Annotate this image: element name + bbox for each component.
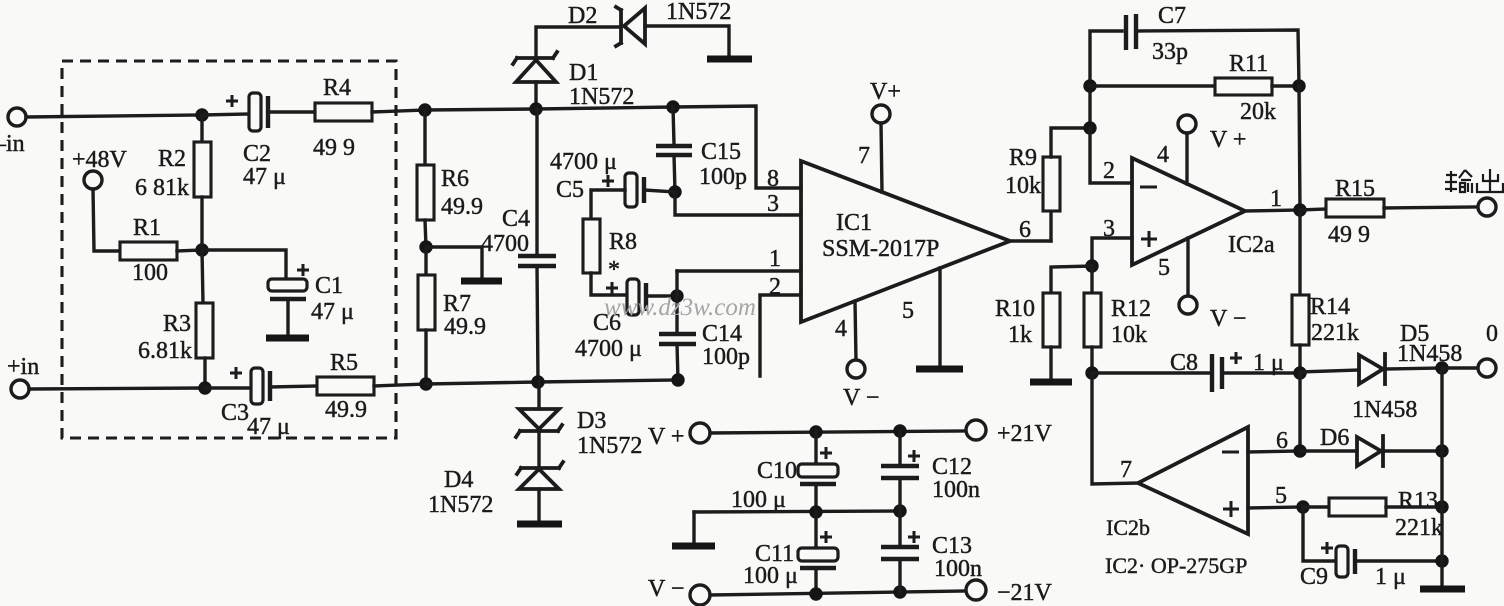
op-amp IC2b <box>1138 427 1248 534</box>
resistor R3 <box>202 250 203 303</box>
svg-text:V −: V − <box>648 576 684 602</box>
resistor R10 <box>1051 266 1092 293</box>
svg-text:1: 1 <box>769 246 781 272</box>
SECTION:LEFT <box>0 61 426 440</box>
capacitor C4 <box>535 109 538 254</box>
resistor R11 <box>1090 84 1215 87</box>
node pin5/R13/C9 <box>1296 500 1309 513</box>
ground (D2) <box>707 56 752 63</box>
capacitor C11 <box>814 512 817 548</box>
svg-text:IC2· OP-275GP: IC2· OP-275GP <box>1105 553 1247 578</box>
node R11 right <box>1292 79 1305 92</box>
svg-text:+21V: +21V <box>997 421 1053 447</box>
left feedback bus <box>1090 31 1122 128</box>
resistor R2 <box>200 115 203 142</box>
terminal -in <box>8 108 26 126</box>
svg-text:2: 2 <box>769 274 781 300</box>
svg-text:R9: R9 <box>1009 145 1037 171</box>
svg-text:4: 4 <box>835 316 847 342</box>
resistor R6 <box>423 110 426 165</box>
capacitor C10 <box>814 432 817 464</box>
wire R1 to node B <box>177 250 202 251</box>
svg-text:4: 4 <box>1157 142 1169 168</box>
svg-text:R5: R5 <box>330 350 358 376</box>
capacitor C6 <box>606 282 618 294</box>
svg-text:2: 2 <box>1103 158 1115 184</box>
diode D6 1N458 <box>1300 449 1357 452</box>
dashed input network box <box>62 61 396 438</box>
svg-text:SSM-2017P: SSM-2017P <box>822 236 939 262</box>
svg-text:4700: 4700 <box>481 231 529 257</box>
capacitor C15 <box>673 107 674 144</box>
svg-text:R15: R15 <box>1335 176 1375 202</box>
resistor R1 <box>120 242 177 260</box>
svg-text:D2: D2 <box>568 3 597 29</box>
node C8/R14 <box>1293 366 1306 379</box>
svg-text:49.9: 49.9 <box>444 314 486 340</box>
resistor R5 <box>317 377 374 395</box>
pin 5 wire <box>1248 507 1303 508</box>
svg-text:3: 3 <box>1103 216 1115 242</box>
node C13 bottom <box>893 585 906 598</box>
node C12 top <box>893 424 906 437</box>
pin 1 output wire <box>1245 210 1300 211</box>
node R6 top <box>418 103 431 116</box>
wire R5 to bottom rail <box>374 384 426 386</box>
ground (IC1 pin5) <box>916 366 963 373</box>
pin 5 ground <box>938 268 941 368</box>
svg-text:0: 0 <box>1486 321 1498 347</box>
node C10/C11 <box>809 505 822 518</box>
pin 4 V- <box>855 301 856 360</box>
resistor R7 <box>424 247 427 275</box>
svg-text:100 μ: 100 μ <box>743 563 798 589</box>
terminal +in <box>11 380 29 398</box>
svg-text:1k: 1k <box>1008 322 1032 348</box>
node D6 out <box>1435 444 1448 457</box>
plus input mark <box>1141 231 1157 247</box>
pin 3 wire <box>1092 238 1132 266</box>
svg-text:C7: C7 <box>1158 3 1186 29</box>
wire R4 to top rail <box>372 110 425 112</box>
wire to output terminal 0 <box>1442 366 1478 369</box>
resistor R9 <box>1049 211 1052 241</box>
SECTION:POWER <box>648 420 1053 606</box>
svg-text:www.dz3w.com: www.dz3w.com <box>604 294 756 321</box>
label shuchu (output) <box>1445 169 1503 193</box>
diode D2 1N572 <box>616 7 621 46</box>
top rail wire <box>425 106 801 188</box>
wire R8 to C6 <box>591 273 627 295</box>
svg-text:1N458: 1N458 <box>1352 397 1417 423</box>
node C6/C14 <box>670 289 683 302</box>
svg-text:1N572: 1N572 <box>577 433 642 459</box>
svg-text:+in: +in <box>7 354 39 380</box>
svg-text:C4: C4 <box>502 206 530 232</box>
node IC2a output <box>1293 203 1306 216</box>
svg-text:1N572: 1N572 <box>666 0 731 25</box>
zener D3 1N572 <box>537 382 540 409</box>
terminal output <box>1478 198 1496 216</box>
svg-text:5: 5 <box>902 298 914 324</box>
svg-text:C15: C15 <box>701 139 741 165</box>
node C14 bottom <box>671 373 684 386</box>
wire R11 node down to output node <box>1299 86 1300 210</box>
svg-text:6: 6 <box>1019 217 1031 243</box>
svg-text:33p: 33p <box>1152 39 1188 65</box>
ground (mid rail) <box>672 543 715 550</box>
capacitor C12 <box>898 431 901 465</box>
mid ground rail <box>694 511 900 512</box>
svg-text:47 μ: 47 μ <box>247 414 290 440</box>
wire +in to node C <box>29 388 205 389</box>
svg-text:100: 100 <box>132 260 168 286</box>
svg-text:6: 6 <box>1276 428 1288 454</box>
node C11 bottom <box>809 587 822 600</box>
svg-text:100 μ: 100 μ <box>731 487 786 513</box>
svg-text:R3: R3 <box>163 311 191 337</box>
wire +48V down to R1 <box>93 189 120 251</box>
pin 7 output wire <box>1092 373 1138 484</box>
op-amp IC1 SSM-2017P <box>801 161 1010 322</box>
wire C8 node down to pin 6 <box>1298 373 1301 451</box>
node B (R1/R2/R3/C1) <box>195 243 208 256</box>
svg-text:R2: R2 <box>158 146 186 172</box>
capacitor C8 <box>1092 371 1210 374</box>
svg-text:IC2b: IC2b <box>1106 515 1150 540</box>
capacitor C14 <box>675 271 678 332</box>
minus input mark <box>1140 186 1157 189</box>
ground (D4) <box>517 521 562 528</box>
svg-text:–in: –in <box>0 131 25 157</box>
wire node B to C1 <box>202 250 286 280</box>
svg-text:C10: C10 <box>757 458 797 484</box>
wire C5 to R8 <box>591 190 625 219</box>
svg-text:IC2a: IC2a <box>1228 232 1275 258</box>
svg-text:V+: V+ <box>870 79 901 105</box>
wire pin2 route <box>760 295 801 376</box>
svg-text:5: 5 <box>1275 483 1287 509</box>
wire V- rail <box>710 591 966 595</box>
svg-text:D4: D4 <box>444 467 473 493</box>
svg-text:49 9: 49 9 <box>1328 222 1370 248</box>
wire V+ rail <box>710 431 966 433</box>
resistor R13 <box>1303 505 1329 508</box>
minus input mark <box>1222 451 1239 454</box>
svg-text:10k: 10k <box>1005 173 1041 199</box>
node C12/C13 <box>893 504 906 517</box>
svg-text:1N572: 1N572 <box>428 492 493 518</box>
pin 6 output wire <box>1010 239 1051 242</box>
node R12 bottom <box>1085 366 1098 379</box>
svg-text:R13: R13 <box>1398 488 1438 514</box>
svg-text:R11: R11 <box>1229 51 1268 77</box>
diode D2 wire <box>536 27 618 58</box>
svg-text:R4: R4 <box>323 75 351 101</box>
svg-text:49 9: 49 9 <box>313 135 355 161</box>
node R13 out <box>1435 500 1448 513</box>
svg-text:R12: R12 <box>1111 296 1151 322</box>
pin 6 wire <box>1248 451 1300 452</box>
capacitor C3 <box>205 386 251 389</box>
ground (C1) <box>286 299 289 335</box>
svg-text:C1: C1 <box>315 273 343 299</box>
diode D5 1N458 <box>1300 370 1359 372</box>
node A (-in junction) <box>195 108 208 121</box>
svg-text:V +: V + <box>648 424 684 450</box>
svg-text:100n: 100n <box>934 556 982 582</box>
plus input mark <box>1223 501 1239 517</box>
capacitor C13 <box>898 511 901 546</box>
svg-text:V −: V − <box>1210 306 1246 332</box>
SECTION:IC1 <box>767 79 1051 411</box>
svg-text:4700 μ: 4700 μ <box>575 336 642 362</box>
node R11 left <box>1083 79 1096 92</box>
svg-text:R10: R10 <box>995 296 1035 322</box>
resistor R4 <box>315 103 372 121</box>
svg-text:V −: V − <box>843 385 879 411</box>
svg-text:49.9: 49.9 <box>441 194 483 220</box>
ground (R6/R7) <box>461 278 502 285</box>
svg-text:49.9: 49.9 <box>325 397 367 423</box>
svg-text:V +: V + <box>1210 127 1246 153</box>
capacitor C2 <box>202 114 249 115</box>
svg-text:221k: 221k <box>1311 320 1359 346</box>
capacitor C7 <box>1124 15 1128 50</box>
svg-text:IC1: IC1 <box>836 210 872 236</box>
node R6/R7 <box>419 240 432 253</box>
resistor R14 <box>1298 210 1301 295</box>
svg-text:−21V: −21V <box>997 580 1053 606</box>
svg-text:100p: 100p <box>702 344 750 370</box>
svg-text:R8: R8 <box>609 229 637 255</box>
resistor R15 <box>1300 209 1326 210</box>
terminal -21V <box>966 580 986 600</box>
svg-text:R1: R1 <box>133 215 161 241</box>
svg-text:5: 5 <box>1158 255 1170 281</box>
svg-text:R14: R14 <box>1310 294 1350 320</box>
svg-text:100p: 100p <box>699 164 747 190</box>
svg-text:47 μ: 47 μ <box>243 164 286 190</box>
node D5 out <box>1435 361 1448 374</box>
node R7 bottom <box>419 377 432 390</box>
svg-text:+48V: +48V <box>72 147 128 173</box>
pin 4 V+ <box>1178 115 1196 133</box>
capacitor C9 <box>1303 507 1335 561</box>
zener D4 1N572 <box>537 431 540 468</box>
svg-text:6.81k: 6.81k <box>138 338 192 364</box>
svg-text:7: 7 <box>858 143 870 169</box>
wire pin1 route <box>677 269 801 272</box>
node pin6 <box>1293 444 1306 457</box>
svg-text:C8: C8 <box>1170 350 1198 376</box>
node C15 top <box>666 100 679 113</box>
svg-text:47 μ: 47 μ <box>311 299 354 325</box>
zener D1 1N572 <box>513 52 557 64</box>
terminal +21V <box>966 420 986 440</box>
resistor R8 <box>583 219 600 273</box>
svg-text:1 μ: 1 μ <box>1375 564 1406 590</box>
svg-text:8: 8 <box>767 166 779 192</box>
SECTION:MID <box>417 0 801 524</box>
svg-text:1N458: 1N458 <box>1397 341 1462 367</box>
node C15/C5 <box>668 185 681 198</box>
SECTION:RIGHT <box>995 3 1503 590</box>
svg-text:6 81k: 6 81k <box>135 175 189 201</box>
node R9 tap <box>1083 121 1096 134</box>
wire pin3 route <box>675 192 801 215</box>
svg-text:D6: D6 <box>1320 425 1349 451</box>
svg-text:1N572: 1N572 <box>569 84 634 110</box>
svg-text:1: 1 <box>1270 186 1282 212</box>
pin 5 V- <box>1186 238 1189 296</box>
svg-text:D3: D3 <box>577 408 606 434</box>
ground (right bus) <box>1420 586 1465 593</box>
node C10 top <box>809 425 822 438</box>
bottom rail wire <box>426 380 678 384</box>
node C9 out <box>1435 554 1448 567</box>
svg-text:4700 μ: 4700 μ <box>550 149 617 175</box>
capacitor C1 <box>268 279 307 291</box>
svg-text:100n: 100n <box>932 477 980 503</box>
svg-text:C5: C5 <box>556 177 584 203</box>
svg-text:*: * <box>608 257 620 283</box>
svg-text:1 μ: 1 μ <box>1253 350 1284 376</box>
pin 2 wire <box>1090 128 1132 183</box>
svg-text:3: 3 <box>767 191 779 217</box>
ground (R10) <box>1030 379 1072 386</box>
resistor R12 <box>1090 266 1093 293</box>
node C4 bottom <box>531 375 544 388</box>
wire to mid ground <box>426 247 482 278</box>
node C (+in junction) <box>198 381 211 394</box>
svg-text:10k: 10k <box>1111 322 1147 348</box>
svg-text:D1: D1 <box>569 60 598 86</box>
pin 3 node <box>1085 259 1098 272</box>
svg-text:C3: C3 <box>221 400 249 426</box>
op-amp IC2a <box>1132 158 1245 265</box>
svg-text:221k: 221k <box>1395 515 1443 541</box>
wire right bus down <box>1440 368 1443 586</box>
svg-text:7: 7 <box>1120 457 1132 483</box>
svg-text:C9: C9 <box>1300 564 1328 590</box>
wire -in to node A <box>26 115 202 117</box>
svg-text:20k: 20k <box>1240 99 1276 125</box>
node D1/C4 top <box>529 102 542 115</box>
svg-text:R6: R6 <box>441 166 469 192</box>
